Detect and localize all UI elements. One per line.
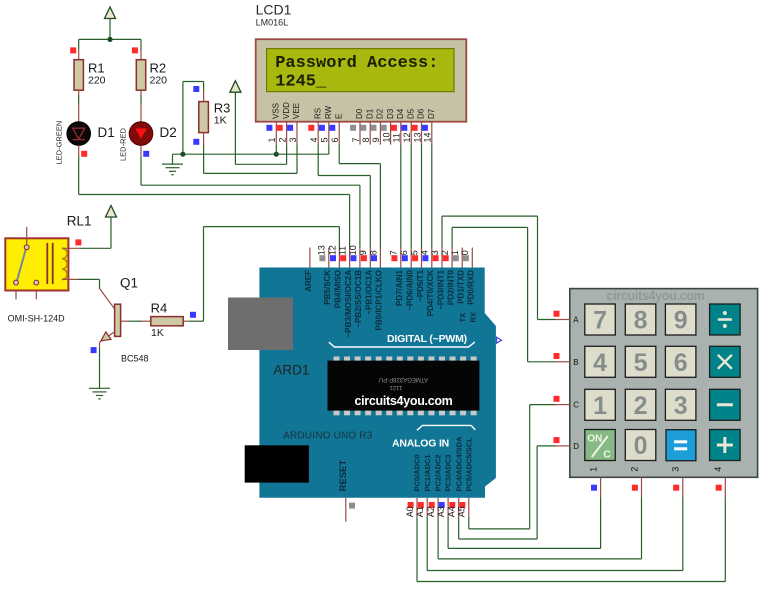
wire R3 top bbox=[203, 82, 205, 91]
wire R3 to VEE bbox=[204, 172, 297, 174]
svg-text:13: 13 bbox=[412, 132, 422, 142]
wire E to arduino pin8 bbox=[379, 164, 381, 248]
svg-text:A: A bbox=[573, 316, 579, 325]
Q1 base bar bbox=[115, 304, 121, 336]
chip body bbox=[328, 361, 480, 411]
arduino top pin 4 stub bbox=[431, 248, 433, 268]
arduino top pin 2 stub bbox=[451, 248, 453, 268]
state square LCD pin 13 bbox=[412, 125, 418, 131]
wire up bbox=[203, 227, 205, 322]
ATMEGA chip bbox=[334, 357, 340, 363]
relay switch contacts bbox=[17, 249, 26, 280]
keypad row B pin bbox=[556, 361, 570, 363]
relay coil bbox=[46, 243, 48, 284]
keypad col 4 pin bbox=[724, 477, 726, 497]
state square R1 top (red) bbox=[70, 47, 76, 53]
junction ground/R3 bbox=[180, 152, 185, 157]
wire A3 up to col1 bbox=[600, 497, 602, 548]
pin D1 anode bbox=[78, 103, 80, 122]
state square R4 (blue) bbox=[190, 312, 196, 318]
svg-text:8: 8 bbox=[634, 307, 648, 335]
wire rowB to keypad bbox=[528, 361, 556, 363]
resistor R3 body bbox=[199, 102, 209, 133]
wire E down bbox=[338, 145, 340, 164]
state square A0 bbox=[408, 502, 414, 508]
svg-text:6: 6 bbox=[399, 250, 409, 255]
wire D1 horizontal to pin11 bbox=[79, 194, 350, 196]
arduino pin A1 stub bbox=[426, 498, 428, 517]
state square D1 (red) bbox=[81, 151, 87, 157]
LCD pin 14 stub bbox=[431, 122, 433, 145]
wire RS horizontal bbox=[318, 175, 370, 177]
power jack bbox=[245, 445, 309, 482]
svg-text:D2: D2 bbox=[376, 108, 385, 119]
state square arduino pin 11 bbox=[340, 255, 346, 261]
LCD pin 1 stub bbox=[275, 122, 277, 145]
state square R3 top (blue) bbox=[193, 86, 199, 92]
wire rowD to keypad bbox=[537, 445, 555, 447]
state square R3 bottom (blue) bbox=[193, 139, 199, 145]
state square A1 bbox=[418, 502, 424, 508]
LCD pin 12 stub bbox=[410, 122, 412, 145]
key + bbox=[710, 430, 741, 461]
relay coil pin top bbox=[62, 247, 80, 249]
state square RESET (gray) bbox=[349, 503, 355, 509]
pin AREF stub bbox=[309, 248, 311, 268]
resistor R4 body bbox=[151, 317, 183, 326]
power +5V arrow P1 (top left) bbox=[105, 7, 116, 19]
wire A2 down bbox=[437, 517, 439, 559]
state square R2 top (red) bbox=[132, 47, 138, 53]
wire base to R4 bbox=[128, 320, 141, 322]
svg-text:PC5/ADC5/SCL: PC5/ADC5/SCL bbox=[464, 437, 473, 492]
wire A1 up to col3 bbox=[682, 497, 684, 570]
relay pin NO (down) bbox=[35, 291, 37, 300]
wire to R1 top bbox=[78, 39, 80, 49]
LCD1 LM016L body bbox=[256, 39, 467, 122]
svg-text:9: 9 bbox=[371, 137, 381, 142]
state square LCD pin 1 bbox=[266, 125, 272, 131]
state square LCD pin 7 bbox=[350, 125, 356, 131]
svg-text:D1: D1 bbox=[365, 108, 374, 119]
LCD pin 6 stub bbox=[338, 122, 340, 145]
svg-text:14: 14 bbox=[423, 132, 433, 142]
svg-text:PC1/ADC1: PC1/ADC1 bbox=[423, 454, 432, 491]
svg-text:7: 7 bbox=[593, 307, 607, 335]
pin Q1 emitter down bbox=[99, 342, 101, 348]
arduino top pin 10 stub bbox=[359, 248, 361, 268]
state square relay coil (red) bbox=[75, 239, 81, 245]
svg-text:PC3/ADC3: PC3/ADC3 bbox=[444, 454, 453, 491]
pin R3 bottom bbox=[203, 133, 205, 145]
LED D2 (LED-RED) bbox=[129, 122, 153, 146]
USB connector bbox=[228, 298, 293, 351]
svg-text:A2: A2 bbox=[426, 506, 436, 517]
svg-text:D: D bbox=[573, 442, 579, 451]
svg-text:1121: 1121 bbox=[389, 384, 403, 390]
state square LCD pin 8 bbox=[360, 125, 366, 131]
state square arduino pin 8 bbox=[371, 255, 377, 261]
wire P2 stem down bbox=[234, 92, 236, 164]
pin R2 bottom bbox=[140, 90, 142, 95]
keypad body bbox=[570, 289, 758, 478]
svg-text:R3: R3 bbox=[214, 101, 231, 116]
state square arduino pin 6 bbox=[402, 255, 408, 261]
svg-text:BC548: BC548 bbox=[121, 354, 149, 364]
svg-text:R1: R1 bbox=[88, 61, 105, 76]
wire to arduino pin12 bbox=[204, 226, 340, 228]
svg-text:A5: A5 bbox=[457, 506, 467, 517]
svg-text:1: 1 bbox=[267, 137, 277, 142]
svg-text:12: 12 bbox=[327, 245, 337, 255]
bracket above ANALOG IN bbox=[417, 425, 475, 430]
power +5V arrow P2 (VDD) bbox=[230, 81, 241, 93]
svg-text:ARDUINO UNO R3: ARDUINO UNO R3 bbox=[283, 431, 373, 442]
arduino top pin 9 stub bbox=[369, 248, 371, 268]
svg-text:circuits4you.com: circuits4you.com bbox=[606, 289, 704, 303]
wire A5 right bbox=[469, 528, 530, 530]
wire E horizontal bbox=[339, 163, 380, 165]
wire rowA down bbox=[537, 216, 539, 319]
wire R1-D1 bbox=[78, 95, 80, 103]
svg-text:5: 5 bbox=[320, 137, 330, 142]
svg-text:LED-RED: LED-RED bbox=[119, 127, 128, 161]
svg-text:A4: A4 bbox=[447, 506, 457, 517]
wire A1 down bbox=[426, 517, 428, 571]
wire A4 right bbox=[459, 538, 537, 540]
LCD pin 10 stub bbox=[390, 122, 392, 145]
svg-text:D5: D5 bbox=[406, 108, 415, 119]
wire LCD data to arduino at x=400.8 bbox=[400, 145, 402, 248]
arduino top pin 6 stub bbox=[410, 248, 412, 268]
svg-text:D7: D7 bbox=[427, 108, 436, 119]
svg-text:1K: 1K bbox=[151, 327, 164, 339]
wire rowB horizontal bbox=[452, 226, 527, 228]
wire A3 right bbox=[448, 547, 600, 549]
state square row B (red) bbox=[554, 353, 560, 359]
state square A4 bbox=[449, 502, 455, 508]
svg-text:~PD6/AIN0: ~PD6/AIN0 bbox=[406, 269, 415, 310]
svg-text:8: 8 bbox=[368, 250, 378, 255]
state square col 1 bbox=[591, 485, 597, 491]
svg-text:D6: D6 bbox=[417, 108, 426, 119]
state square LCD pin 9 bbox=[371, 125, 377, 131]
wire rowA to keypad bbox=[538, 319, 556, 321]
wire R2-D2 bbox=[140, 95, 142, 103]
svg-text:4: 4 bbox=[713, 467, 723, 472]
key 4 bbox=[585, 346, 616, 377]
svg-text:7: 7 bbox=[389, 250, 399, 255]
state square arduino pin 9 bbox=[361, 255, 367, 261]
wire down to arduino pin11 bbox=[349, 195, 351, 248]
state square arduino pin 5 bbox=[412, 255, 418, 261]
svg-text:PB0/ICP1/CLKO: PB0/ICP1/CLKO bbox=[375, 270, 384, 330]
svg-text:Q1: Q1 bbox=[120, 276, 138, 291]
svg-text:~PD3/INT1: ~PD3/INT1 bbox=[436, 269, 445, 309]
svg-text:D0: D0 bbox=[355, 108, 364, 119]
state square arduino pin 13 bbox=[319, 255, 325, 261]
wire A0 down bbox=[416, 517, 418, 582]
svg-text:9: 9 bbox=[358, 250, 368, 255]
pin D2 anode bbox=[140, 103, 142, 122]
pin RESET stub bbox=[345, 498, 347, 522]
svg-text:RL1: RL1 bbox=[67, 214, 92, 229]
svg-text:Password Access:: Password Access: bbox=[275, 54, 438, 73]
svg-text:TX: TX bbox=[458, 313, 467, 323]
arduino pin A3 stub bbox=[447, 498, 449, 517]
state square LCD pin 4 bbox=[308, 125, 314, 131]
svg-text:A1: A1 bbox=[415, 506, 425, 517]
key 0 bbox=[625, 430, 656, 461]
state square A2 bbox=[429, 502, 435, 508]
wire emitter to ground bbox=[99, 349, 101, 389]
wire down to pin12 bbox=[338, 227, 340, 248]
svg-text:~PB3/MOSI/OC2A: ~PB3/MOSI/OC2A bbox=[344, 270, 353, 338]
power +12V arrow P3 (relay) bbox=[106, 206, 117, 218]
Arduino board ARD1 body bbox=[259, 268, 496, 498]
pin R1 bottom bbox=[78, 90, 80, 95]
svg-text:13: 13 bbox=[317, 245, 327, 255]
state square Q1 emitter (blue) bbox=[91, 347, 97, 353]
svg-text:LCD1: LCD1 bbox=[256, 2, 292, 18]
svg-text:C: C bbox=[573, 401, 579, 410]
svg-text:1: 1 bbox=[589, 467, 599, 472]
wire A0 up to col4 bbox=[724, 497, 726, 581]
state square row D (red) bbox=[554, 437, 560, 443]
wire arduino pin3 up bbox=[441, 216, 443, 247]
svg-text:LED-GREEN: LED-GREEN bbox=[55, 121, 64, 165]
svg-text:PC4/ADC4/SDA: PC4/ADC4/SDA bbox=[454, 436, 463, 492]
key 3 bbox=[665, 389, 696, 420]
svg-text:~PB1/OC1A: ~PB1/OC1A bbox=[365, 270, 374, 315]
arduino pin A0 stub bbox=[416, 498, 418, 517]
wire A3 down bbox=[447, 517, 449, 548]
key op row1 bbox=[710, 346, 741, 377]
state square LCD pin 5 bbox=[319, 125, 325, 131]
wire A2 right bbox=[438, 558, 641, 560]
wire LCD data to arduino at x=431.8 bbox=[431, 145, 433, 248]
svg-text:7: 7 bbox=[351, 137, 361, 142]
ground stem bbox=[172, 154, 174, 164]
Q1 emitter arrow bbox=[101, 332, 111, 341]
state square LCD pin 11 bbox=[391, 125, 397, 131]
LCD pin 9 stub bbox=[379, 122, 381, 145]
resistor R1 body bbox=[74, 60, 83, 90]
ground symbol (LCD area) bbox=[162, 164, 183, 175]
keypad row A pin bbox=[556, 319, 570, 321]
key op row2 bbox=[710, 389, 741, 420]
arduino top pin 8 stub bbox=[379, 248, 381, 268]
wire up to VDD bbox=[286, 145, 288, 165]
wire D2 down bbox=[140, 157, 142, 186]
arduino top pin 5 stub bbox=[421, 248, 423, 268]
wire up to arrow P3 bbox=[110, 217, 112, 249]
pin Q1 collector diagonal bbox=[100, 289, 115, 309]
wire A1 right bbox=[427, 570, 683, 572]
svg-text:DIGITAL (~PWM): DIGITAL (~PWM) bbox=[387, 333, 467, 345]
svg-text:D4: D4 bbox=[396, 108, 405, 119]
wire R1-R2 top bus bbox=[79, 38, 141, 40]
LED D1 (LED-GREEN) bbox=[67, 122, 91, 146]
wire VSS down bbox=[275, 145, 277, 155]
key ON/C bbox=[585, 430, 616, 461]
svg-text:6: 6 bbox=[330, 137, 340, 142]
state square arduino pin 3 bbox=[433, 255, 439, 261]
wire to R2 top bbox=[140, 39, 142, 49]
state square LCD pin 14 bbox=[422, 125, 428, 131]
svg-text:VDD: VDD bbox=[282, 102, 291, 119]
wire R3 bottom down bbox=[203, 145, 205, 173]
svg-text:ARD1: ARD1 bbox=[273, 363, 309, 378]
wire coil to +12V bbox=[80, 247, 111, 249]
key 8 bbox=[625, 304, 656, 335]
LCD pin 7 stub bbox=[359, 122, 361, 145]
LCD pin 13 stub bbox=[421, 122, 423, 145]
relay coil pin bottom bbox=[62, 278, 79, 280]
state square arduino pin 7 bbox=[391, 255, 397, 261]
relay pin common (up) bbox=[26, 227, 28, 246]
svg-text:PD4/T0/XCK: PD4/T0/XCK bbox=[426, 270, 435, 316]
svg-text:D1: D1 bbox=[98, 125, 115, 140]
pin D1 cathode bbox=[78, 145, 80, 156]
svg-text:2: 2 bbox=[629, 467, 639, 472]
svg-text:2: 2 bbox=[277, 137, 287, 142]
pin R4 left bbox=[142, 320, 151, 322]
junction P1/R1/R2 bbox=[107, 37, 112, 42]
state square LCD pin 3 bbox=[287, 125, 293, 131]
svg-text:0: 0 bbox=[460, 250, 470, 255]
wire A2 up to col2 bbox=[641, 497, 643, 559]
state square arduino pin 2 bbox=[443, 255, 449, 261]
LCD pin 3 stub bbox=[296, 122, 298, 145]
state square col 3 bbox=[673, 485, 679, 491]
wire D1 down bbox=[78, 157, 80, 195]
svg-text:8: 8 bbox=[361, 137, 371, 142]
state square LCD pin 2 bbox=[277, 125, 283, 131]
state square col 4 bbox=[716, 485, 722, 491]
keypad col 2 pin bbox=[641, 477, 643, 497]
svg-text:11: 11 bbox=[338, 246, 348, 255]
resistor R2 body bbox=[136, 60, 145, 90]
state square LCD pin 10 bbox=[381, 125, 387, 131]
state square arduino pin 1 bbox=[453, 255, 459, 261]
svg-text:ANALOG IN: ANALOG IN bbox=[392, 437, 449, 449]
svg-text:PB4/MISO: PB4/MISO bbox=[334, 270, 343, 308]
svg-text:E: E bbox=[334, 114, 343, 119]
keypad row D pin bbox=[556, 445, 570, 447]
LCD screen bbox=[267, 49, 454, 92]
wire A0 right bbox=[417, 581, 725, 583]
wire R3-top down to ground bus bbox=[182, 82, 184, 155]
svg-text:PD2/INT0: PD2/INT0 bbox=[446, 269, 455, 305]
wire RS down bbox=[317, 145, 319, 176]
wire down to arduino pin10 bbox=[359, 185, 361, 247]
pin R4 right bbox=[183, 320, 189, 322]
svg-text:3: 3 bbox=[430, 250, 440, 255]
svg-text:R4: R4 bbox=[151, 301, 168, 316]
svg-text:RESET: RESET bbox=[338, 460, 349, 492]
wire A4 down bbox=[458, 517, 460, 539]
arduino top pin 1 stub bbox=[461, 248, 463, 268]
svg-text:PC0/ADC0: PC0/ADC0 bbox=[413, 454, 422, 491]
svg-text:5: 5 bbox=[634, 349, 648, 377]
key 9 bbox=[665, 304, 696, 335]
wire RS to arduino pin9 bbox=[369, 176, 371, 248]
key 7 bbox=[585, 304, 616, 335]
LCD pin 5 stub bbox=[328, 122, 330, 145]
svg-text:1245_: 1245_ bbox=[275, 73, 327, 92]
key op row0 bbox=[710, 304, 741, 335]
svg-text:~PD5/T1: ~PD5/T1 bbox=[416, 269, 425, 301]
arduino top pin 0 stub bbox=[471, 248, 473, 268]
wire down to collector bbox=[99, 279, 101, 288]
pin R2 top bbox=[140, 50, 142, 60]
junction ground/VSS bbox=[274, 152, 279, 157]
wire A4 up to rowD bbox=[536, 446, 538, 539]
wire P1 stem bbox=[109, 19, 111, 40]
svg-text:4: 4 bbox=[309, 137, 319, 142]
wire A5 down bbox=[468, 517, 470, 529]
svg-text:RW: RW bbox=[324, 105, 333, 119]
svg-text:12: 12 bbox=[402, 132, 412, 142]
svg-text:4: 4 bbox=[593, 349, 607, 377]
svg-text:PD7/AIN1: PD7/AIN1 bbox=[395, 269, 404, 306]
wire D2 horizontal to pin10 bbox=[141, 184, 360, 186]
svg-text:2: 2 bbox=[634, 392, 648, 420]
state square row C (red) bbox=[554, 396, 560, 402]
key 6 bbox=[665, 346, 696, 377]
svg-text:1K: 1K bbox=[214, 115, 227, 127]
svg-text:3: 3 bbox=[288, 137, 298, 142]
LCD pin 8 stub bbox=[369, 122, 371, 145]
svg-text:D2: D2 bbox=[160, 125, 177, 140]
svg-text:C: C bbox=[603, 449, 611, 461]
svg-text:A3: A3 bbox=[436, 506, 446, 517]
arduino top pin 12 stub bbox=[338, 248, 340, 268]
pin Q1 base bbox=[121, 320, 129, 322]
svg-text:11: 11 bbox=[392, 133, 402, 142]
svg-text:2: 2 bbox=[440, 250, 450, 255]
state square D2 (blue) bbox=[143, 151, 149, 157]
arduino pin A4 stub bbox=[458, 498, 460, 517]
wire LCD data to arduino at x=411.2 bbox=[410, 145, 412, 248]
key 1 bbox=[585, 389, 616, 420]
keypad col 1 pin bbox=[600, 477, 602, 497]
svg-text:220: 220 bbox=[150, 75, 168, 87]
key 2 bbox=[625, 389, 656, 420]
pin R1 top bbox=[78, 50, 80, 60]
svg-text:RS: RS bbox=[313, 108, 322, 119]
svg-text:AREF: AREF bbox=[304, 270, 313, 292]
LCD pin 11 stub bbox=[400, 122, 402, 145]
svg-text:ATMEGA328P-PU: ATMEGA328P-PU bbox=[379, 376, 428, 382]
svg-text:VSS: VSS bbox=[272, 103, 281, 119]
svg-text:B: B bbox=[573, 358, 578, 367]
relay RL1 body bbox=[5, 238, 68, 290]
wire up to VEE bbox=[296, 145, 298, 174]
svg-text:PD0/RXD: PD0/RXD bbox=[467, 270, 476, 305]
state square arduino pin 4 bbox=[422, 255, 428, 261]
arduino pin A2 stub bbox=[437, 498, 439, 517]
pin D2 cathode bbox=[140, 145, 142, 156]
LCD pin 4 stub bbox=[317, 122, 319, 145]
svg-text:6: 6 bbox=[674, 349, 688, 377]
keypad row C pin bbox=[556, 404, 570, 406]
ground bus wire bbox=[173, 153, 329, 155]
svg-text:circuits4you.com: circuits4you.com bbox=[354, 394, 452, 408]
key = bbox=[666, 430, 696, 461]
svg-text:VEE: VEE bbox=[292, 103, 301, 119]
